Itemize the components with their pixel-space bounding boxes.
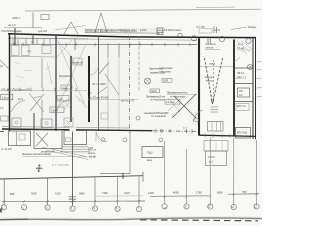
axis vertical 11 — [233, 138, 235, 206]
svg-text:сущ 1 24: сущ 1 24 — [38, 30, 47, 33]
furniture block right of wall x71 — [73, 58, 82, 65]
fixture above bottom wall b — [41, 119, 52, 128]
ticks on dash-dot edge — [156, 129, 192, 133]
secondary light X — [168, 98, 180, 112]
short stub wall x108 — [107, 46, 109, 57]
left edge blob — [0, 209, 2, 213]
bay room 2 — [34, 130, 62, 149]
paper background — [0, 0, 262, 226]
fixture above bottom wall a — [12, 118, 21, 127]
left area box label — [1, 94, 13, 100]
cloakroom note row1 underline — [167, 94, 197, 96]
top secondary line segment — [196, 6, 235, 9]
svg-text:по плитке вх 2М: по плитке вх 2М — [41, 151, 55, 153]
top-left dimension tick — [32, 13, 34, 29]
svg-text:ГЩУ: ГЩУ — [147, 150, 153, 154]
grid bubble 5 — [92, 206, 97, 211]
dimension slash ticks — [3, 193, 257, 203]
small box x101 — [101, 113, 108, 119]
interior partition x97.5 — [98, 36, 100, 131]
small roof-vent triangle — [64, 22, 78, 34]
interior tone wash mid — [129, 36, 199, 131]
axis bubble on bottom wall 3 — [159, 138, 163, 142]
bay room 3 inner tick — [60, 147, 90, 152]
short top wall stub x15 — [14, 28, 16, 45]
door arc near stair wall — [193, 110, 203, 122]
grid bubble 6 — [115, 206, 120, 211]
bay room 3 — [64, 131, 87, 145]
gorka divider line — [200, 66, 233, 68]
scribble between walls — [45, 62, 52, 84]
bay room 2 steps — [36, 133, 48, 146]
axis bubble on wall x180 — [178, 33, 182, 37]
porch fuse box — [66, 138, 72, 142]
axis bubble on bottom wall 1 — [101, 138, 105, 142]
top-left tiny box — [41, 15, 49, 20]
bottom wall right section — [199, 135, 256, 136]
svg-text:8050: 8050 — [217, 190, 223, 194]
svg-text:сущ. эл: сущ. эл — [88, 150, 97, 152]
porch outline below plan — [100, 132, 130, 174]
entrance door arc below wall — [96, 132, 107, 142]
stair arrowhead — [211, 100, 214, 104]
bottom scan smudge line — [0, 218, 262, 220]
interior wall x56 — [55, 35, 57, 131]
svg-text:7380: 7380 — [102, 191, 108, 195]
second note underline — [40, 151, 90, 154]
fixture mark c — [66, 120, 71, 125]
bay note underline — [22, 155, 96, 158]
svg-text:3500: 3500 — [31, 192, 37, 196]
bay room 1 fixture — [19, 134, 25, 140]
svg-text:840: 840 — [10, 192, 15, 196]
light partition x108 lower — [107, 57, 109, 131]
axis line x139 (dashed) — [138, 36, 140, 92]
top-right small label box — [199, 29, 212, 34]
room area box — [61, 85, 72, 89]
long faint cross room2 b — [58, 44, 86, 106]
mid dimension row underline — [88, 98, 138, 100]
svg-text:4120: 4120 — [55, 192, 61, 196]
dimension ticks along right bottom wall — [205, 133, 230, 138]
cross brace in room 2 — [57, 40, 72, 57]
top-left dimension annotation line — [4, 27, 42, 29]
svg-text:1400: 1400 — [148, 191, 154, 195]
axis bubble on bottom wall 2 — [123, 138, 127, 142]
circled glyph big room lower-left — [136, 116, 140, 120]
svg-text:л260 1: л260 1 — [12, 16, 21, 20]
svg-text:ЕРУ 2.0: ЕРУ 2.0 — [237, 105, 246, 108]
bottom smudge left dark bit — [0, 218, 28, 220]
light partition x119 lower — [118, 57, 120, 131]
bottom smudge soft halo — [0, 218, 262, 220]
grid bubble 8 — [162, 204, 167, 209]
right outer wall (double) — [253, 37, 256, 139]
stub wall x75 — [74, 38, 76, 50]
grid bubble 9 — [184, 204, 189, 209]
top-right leader line — [231, 27, 247, 30]
svg-text:Элементы отмостки вх.1М 2нд: Элементы отмостки вх.1М 2нд — [22, 153, 51, 156]
long faint cross room2 a — [58, 42, 86, 108]
axis vertical 6 — [117, 177, 119, 206]
right edge tick 4 — [257, 87, 262, 89]
main dimension chain line — [2, 194, 259, 202]
svg-text:вх 1: вх 1 — [209, 162, 214, 164]
door arc right strip b — [234, 76, 240, 80]
top wall of building — [8, 34, 256, 38]
svg-text:нм 2,5: нм 2,5 — [8, 23, 16, 27]
axis vertical 4 (dark) — [72, 132, 74, 206]
axis vertical 1 — [3, 179, 5, 205]
wall stub x33 — [32, 34, 34, 44]
svg-text:тб 1 2,5 h2О колодец: тб 1 2,5 h2О колодец — [1, 29, 22, 33]
cloakroom small box — [165, 100, 180, 105]
small leader line top-left — [55, 26, 86, 31]
PES box — [142, 147, 163, 158]
svg-text:ввод: ввод — [147, 160, 153, 162]
svg-text:1780: 1780 — [196, 191, 202, 195]
grid bubble 1 — [1, 205, 6, 210]
bay leader line 2 — [46, 150, 88, 160]
circled glyph right strip — [247, 64, 252, 69]
right strip divider 3 — [234, 101, 253, 103]
right strip boxed label — [238, 88, 250, 97]
svg-text:горка: горка — [209, 63, 216, 66]
stair middle return dashes — [212, 60, 214, 98]
wc fixture 2 — [22, 46, 30, 56]
grid bubble 10 — [208, 204, 213, 209]
stair room label underline — [205, 49, 220, 51]
svg-text:СТОЛ: СТОЛ — [208, 156, 215, 159]
grid bubble 12 — [254, 204, 259, 209]
svg-text:от. 10 120: от. 10 120 — [1, 148, 12, 151]
axis vertical 7 — [138, 176, 140, 206]
small no box — [150, 89, 160, 93]
ladder icon above wall — [157, 28, 163, 35]
stair room wall x199 (heavy) — [198, 38, 200, 135]
bottom wall left section — [2, 129, 152, 131]
short stub wall x119 — [118, 46, 120, 57]
scribbles room2 lower — [60, 96, 84, 110]
tall gable triangle — [95, 13, 107, 33]
bottom edge dash-dot continuation — [152, 130, 197, 133]
right room text 1 underline — [237, 49, 251, 51]
tiny left-edge box — [1, 116, 9, 121]
axis vertical 5 — [94, 177, 96, 205]
top wall inner face (right) — [88, 39, 197, 40]
interior wall x71 — [70, 56, 72, 122]
small circle glyph on edge — [160, 129, 163, 132]
note row underline — [85, 32, 160, 35]
svg-text:СВЛ 2.2: СВЛ 2.2 — [237, 76, 247, 79]
right edge tick 3 — [257, 77, 262, 79]
right-top room hatch — [236, 41, 252, 55]
bay room 1 — [9, 131, 31, 146]
door double jamb on stair room top wall — [208, 38, 210, 44]
axis line x129.5 (dash-dot) — [129, 36, 131, 133]
stair landing rungs — [212, 122, 221, 132]
right room small box — [236, 104, 249, 111]
wc fixture 1 — [12, 46, 20, 56]
door arc bottom-left 1 — [11, 100, 25, 112]
grid bubble 4 — [70, 206, 75, 211]
corner diagonal top-left — [0, 60, 9, 69]
left outer wall — [9, 34, 11, 131]
right lower box A hatch — [210, 141, 222, 152]
ground line — [0, 176, 143, 179]
grid bubble 3 — [45, 205, 50, 210]
small box mid-left — [57, 96, 69, 102]
wall stub x34 above bottom wall — [33, 113, 35, 130]
svg-text:по 15: по 15 — [214, 29, 221, 32]
bottom wall inner face left — [2, 127, 130, 128]
small dark tick on ground line — [122, 173, 124, 179]
right edge tick 1 — [257, 61, 262, 63]
scan noise speckle — [0, 0, 262, 226]
door arc right strip a — [234, 58, 240, 63]
svg-text:3.фто: 3.фто — [2, 97, 9, 100]
below-wall tick marks left — [13, 39, 50, 45]
svg-text:4000: 4000 — [173, 191, 179, 195]
svg-text:0,4 кВ: 0,4 кВ — [89, 157, 96, 159]
scribble cross left-mid — [29, 93, 44, 112]
stair landing box — [208, 122, 224, 132]
interior dimension line under top wall — [9, 43, 197, 46]
wall x234 — [233, 40, 235, 136]
grid bubble 11 — [231, 204, 236, 209]
bottom smudge dark dashes — [140, 220, 258, 221]
axis bubble on top wall B — [219, 36, 224, 41]
svg-text:клетка: клетка — [206, 47, 214, 50]
top dimension line — [25, 9, 261, 11]
left dimension row line — [0, 90, 87, 92]
door leaf middle — [98, 63, 109, 76]
entrance stub below wall — [95, 132, 97, 143]
door cross X — [172, 94, 196, 118]
axis vertical 12 — [256, 140, 258, 205]
svg-text:ПЭ: ПЭ — [239, 90, 243, 93]
door opening white gap in bottom wall — [70, 127, 77, 131]
axis vertical 9 — [186, 149, 188, 204]
benchmark marks near axis 4 — [69, 195, 77, 203]
circled glyph right strip cross — [248, 65, 251, 68]
right lower box B — [206, 151, 227, 166]
svg-text:ЛФ 6.1: ЛФ 6.1 — [237, 72, 245, 75]
interior tone wash left — [9, 34, 129, 131]
small axis bubble mid-plan — [145, 78, 151, 84]
door leaf near x100 — [97, 87, 107, 94]
right edge tick 5 — [257, 96, 262, 98]
bubble inner cross — [146, 79, 150, 83]
dimension string line — [95, 195, 143, 197]
left room faint scribbles b — [60, 64, 85, 106]
stair dashed V arrow — [205, 58, 223, 104]
svg-text:ЕРУ ЕХВ: ЕРУ ЕХВ — [237, 132, 248, 135]
axis bubble on top wall C — [246, 38, 251, 43]
grp cluster extra mark — [214, 27, 217, 34]
bay room 1 inner mark — [16, 131, 18, 146]
cloakroom area box — [162, 79, 172, 83]
door arc bottom-left 2 — [57, 100, 69, 111]
right lower box A — [204, 141, 228, 152]
svg-text:кабель: кабель — [88, 153, 96, 155]
top note band tone — [84, 28, 164, 33]
svg-text:гр.1 пал: гр.1 пал — [196, 26, 205, 29]
grid bubble 2 — [21, 205, 26, 210]
fixture bottoms line top-left — [10, 56, 56, 59]
stair rungs hatch — [211, 107, 219, 112]
fixture above bottom wall c — [64, 118, 73, 127]
ground line end tick — [142, 172, 144, 182]
dimension ticks row y89 — [8, 88, 76, 92]
svg-text:эвакуац.: эвакуац. — [205, 77, 214, 79]
right strip divider 1 — [234, 67, 253, 69]
interior wall x89 (thick) — [88, 56, 90, 122]
svg-text:уг 1 отм 0.000: уг 1 отм 0.000 — [52, 165, 69, 167]
interior wall x42 (partial) — [41, 58, 43, 130]
fixture inner mark a — [15, 121, 18, 124]
left edge tick at bay start — [0, 130, 4, 132]
svg-text:Развод.: Развод. — [248, 26, 257, 29]
section mark 1-2 — [36, 165, 43, 173]
right edge tick 2 — [257, 69, 262, 71]
leader diagonal in left room — [105, 74, 119, 95]
svg-text:1ЭЦП: 1ЭЦП — [51, 109, 58, 112]
door arc from wall x89 — [90, 65, 100, 76]
axis bubble on top wall A — [191, 36, 196, 41]
axis vertical 10 — [209, 138, 211, 206]
ladder icon rungs — [157, 30, 163, 32]
svg-text:2215: 2215 — [124, 191, 130, 195]
right strip divider 2 — [234, 83, 253, 85]
grid bubble 7 — [136, 206, 141, 211]
fixture inner mark b — [45, 121, 48, 124]
axis vertical 8 — [164, 141, 166, 204]
top wall inner face (left) — [8, 38, 88, 39]
ERU box — [236, 128, 251, 139]
svg-text:1.5 14,5 по месту: 1.5 14,5 по месту — [164, 28, 182, 32]
small cabinet box room1 — [42, 46, 51, 54]
svg-text:3845: 3845 — [79, 191, 85, 195]
svg-text:выход: выход — [206, 80, 213, 82]
svg-text:780: 780 — [242, 190, 247, 194]
dimension ticks on interior line — [14, 43, 190, 47]
axis vertical 3 — [47, 178, 49, 205]
left room faint scribbles a — [14, 62, 32, 78]
bay leader line 1 — [42, 147, 86, 157]
small box lower-left — [50, 107, 64, 113]
small bubble near door — [195, 118, 199, 122]
